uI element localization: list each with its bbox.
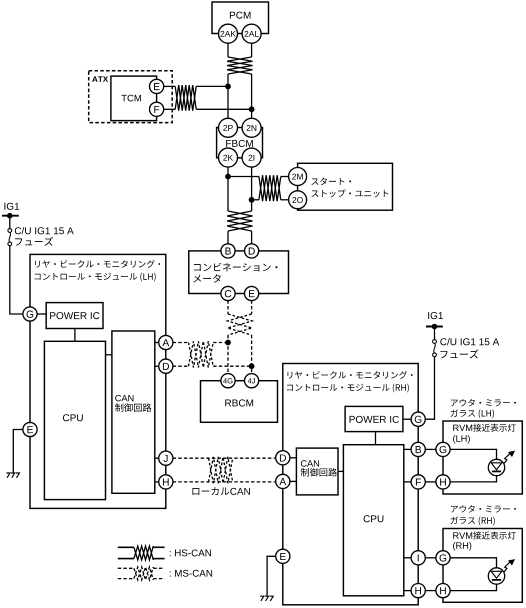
- wire CPU to I: [404, 557, 412, 559]
- label LH module: [35, 260, 160, 268]
- wire G to LED RH: [450, 558, 497, 568]
- RBCM box: [201, 381, 278, 423]
- wire 2AL down: [251, 43, 253, 57]
- PCM pin 2AK: [219, 24, 238, 43]
- wire fuse to G RH: [425, 357, 434, 420]
- label fuse right: [440, 338, 499, 345]
- RBCM pin 4J: [245, 374, 259, 388]
- label HS-CAN: [170, 549, 211, 556]
- wire I to G: [425, 557, 436, 559]
- label fuse left: [15, 227, 74, 234]
- LED LH: [488, 459, 504, 475]
- wire dashed left to 4G: [227, 335, 229, 373]
- fuse C/U IG1 15A right: [433, 340, 437, 344]
- start-stop unit box: [298, 163, 393, 210]
- CPU box LH: [44, 341, 105, 499]
- label RH module: [288, 371, 413, 379]
- FBCM pin 2I: [242, 148, 261, 167]
- ground RH: [260, 596, 264, 601]
- wire bus left PCM twist to 2P: [227, 74, 229, 118]
- wire twist to right bus junction: [196, 108, 251, 110]
- wire CAN to CPU RH: [338, 470, 343, 472]
- wire C down dashed: [227, 300, 229, 314]
- LH pin H: [159, 475, 173, 489]
- RH pin A: [276, 474, 290, 488]
- wire twist to E-line junction: [213, 365, 251, 367]
- legend MS-CAN symbol: [118, 567, 134, 569]
- twisted pair start-stop unit (HS-CAN): [259, 175, 281, 201]
- wire CPU to H: [404, 590, 412, 592]
- CAN circuit box RH: [296, 448, 338, 495]
- wire CAN to H: [155, 481, 159, 483]
- label local CAN: [192, 487, 229, 495]
- wire CAN to J: [155, 457, 159, 459]
- meter pin C: [221, 286, 235, 300]
- wire D dashed to twist: [173, 365, 189, 367]
- wire CAN to A: [155, 342, 159, 344]
- wire TCM F to twist: [164, 108, 176, 110]
- twisted pair local CAN: [209, 457, 233, 483]
- FBCM pin 2K: [219, 148, 238, 167]
- RH pin I: [411, 551, 425, 565]
- wire H to RH A dashed: [173, 481, 275, 483]
- wire twist to 2M: [281, 176, 288, 178]
- label combination meter: [194, 263, 278, 272]
- meter pin D: [245, 244, 259, 258]
- wire 2K down to meter twist: [227, 167, 229, 211]
- RH module box: [283, 364, 418, 605]
- wire CAN to D: [155, 365, 159, 367]
- wire CPU to B: [404, 448, 412, 450]
- wire G to LED LH: [450, 449, 496, 459]
- label RVM indicator LH: [453, 425, 472, 431]
- wire A dashed to twist: [173, 342, 189, 344]
- twisted pair TCM (HS-CAN): [175, 85, 196, 111]
- FBCM box: [217, 128, 263, 158]
- wire H to H: [425, 590, 436, 592]
- ground LH: [6, 473, 10, 478]
- junction node start-stop bottom / right bus: [249, 197, 255, 203]
- RH pin D: [276, 451, 290, 465]
- wire IG1 to fuse: [9, 216, 11, 229]
- LED RH: [488, 568, 504, 584]
- meter pin B: [221, 244, 235, 258]
- wire twist to D: [251, 231, 253, 244]
- wire twist to left bus junction: [196, 85, 228, 87]
- legend HS-CAN symbol: [118, 546, 134, 548]
- RVM indicator RH box: [443, 529, 522, 603]
- twisted pair LH module MS-CAN stub: [189, 341, 214, 367]
- wire CPU to F: [404, 481, 412, 483]
- junction node E-wire / left bus: [225, 84, 231, 90]
- PCM pin 2AL: [242, 24, 261, 43]
- RH pin F: [411, 475, 425, 489]
- LH pin A: [159, 335, 173, 349]
- CPU box RH: [343, 445, 403, 596]
- TCM pin E: [150, 79, 164, 93]
- junction node start-stop top / left bus: [225, 174, 231, 180]
- wire B to G: [425, 448, 436, 450]
- RVM indicator LH box: [443, 421, 522, 494]
- junction node A-wire / C-line: [225, 340, 231, 346]
- wire POWER IC to G RH: [403, 418, 411, 420]
- RH pin G: [411, 412, 425, 426]
- LH pin G: [23, 307, 37, 321]
- meter pin E: [245, 286, 259, 300]
- label outer mirror glass LH: [451, 399, 516, 406]
- wire 2AK down: [227, 43, 229, 57]
- wire E down dashed: [251, 300, 253, 314]
- wire bus right PCM twist to 2N: [251, 74, 253, 118]
- LH pin D: [159, 359, 173, 373]
- node IG1 left: [4, 203, 19, 210]
- FBCM pin 2N: [242, 118, 261, 137]
- RH pin H: [411, 584, 425, 598]
- label RVM indicator RH: [453, 532, 472, 538]
- ATX dashed enclosure: [89, 71, 173, 123]
- label MS-CAN: [170, 570, 212, 577]
- RVM RH pin G: [436, 551, 450, 565]
- wire F to H: [425, 481, 436, 483]
- POWER IC box LH: [46, 303, 103, 329]
- twisted pair meter-RBCM (MS-CAN): [228, 314, 253, 335]
- wire CPU to CAN LH: [106, 354, 112, 356]
- junction node D-wire / E-line: [249, 363, 255, 369]
- combination meter box: [189, 251, 289, 294]
- wire dashed right to 4J: [251, 335, 253, 373]
- wire fuse to G LH: [10, 246, 23, 314]
- wire LED to H RH: [450, 584, 497, 590]
- wire to start-stop twist top: [228, 176, 259, 178]
- wire twist to 2O: [281, 199, 288, 201]
- node IG1 right: [428, 312, 443, 319]
- wire D to CAN RH: [290, 457, 297, 459]
- LH pin E: [23, 422, 37, 436]
- wire to start-stop twist bottom: [252, 199, 259, 201]
- wire POWER IC to CPU RH: [375, 432, 377, 445]
- twisted pair PCM-FBCM (HS-CAN): [227, 57, 252, 74]
- wire J to RH D dashed: [173, 457, 275, 459]
- RH pin B: [411, 442, 425, 456]
- wire twist to C-line junction: [213, 342, 228, 344]
- TCM pin F: [150, 102, 164, 116]
- fuse C/U IG1 15A left: [8, 229, 12, 233]
- RBCM pin 4G: [221, 374, 235, 388]
- wire POWER IC to CPU LH: [74, 329, 76, 342]
- TCM box: [111, 76, 157, 121]
- CAN circuit box LH: [112, 331, 155, 493]
- POWER IC box RH: [345, 406, 403, 431]
- twisted pair FBCM-meter (HS-CAN): [227, 211, 252, 231]
- RH pin E: [276, 549, 290, 563]
- junction node F-wire / right bus: [249, 106, 255, 112]
- wire E to ground LH: [13, 430, 23, 473]
- wire A to CAN RH: [290, 480, 297, 482]
- wire TCM E to twist: [164, 85, 176, 87]
- wire G to POWER IC: [37, 313, 46, 315]
- PCM box: [212, 2, 269, 34]
- LH module box: [30, 254, 166, 508]
- start-stop pin 2M: [289, 168, 307, 186]
- wire IG1 right to fuse: [434, 327, 436, 340]
- label start-stop unit: [311, 178, 351, 186]
- LH pin J: [159, 451, 173, 465]
- RVM RH pin H: [436, 584, 450, 598]
- wire twist to B: [227, 231, 229, 244]
- RVM LH pin G: [436, 442, 450, 456]
- FBCM pin 2P: [219, 118, 238, 137]
- wire 2I down to meter twist: [251, 167, 253, 211]
- wire E to ground RH: [267, 556, 276, 596]
- wire LED to H LH: [450, 476, 497, 482]
- start-stop pin 2O: [289, 191, 307, 209]
- RVM LH pin H: [436, 475, 450, 489]
- label outer mirror glass RH: [451, 505, 516, 512]
